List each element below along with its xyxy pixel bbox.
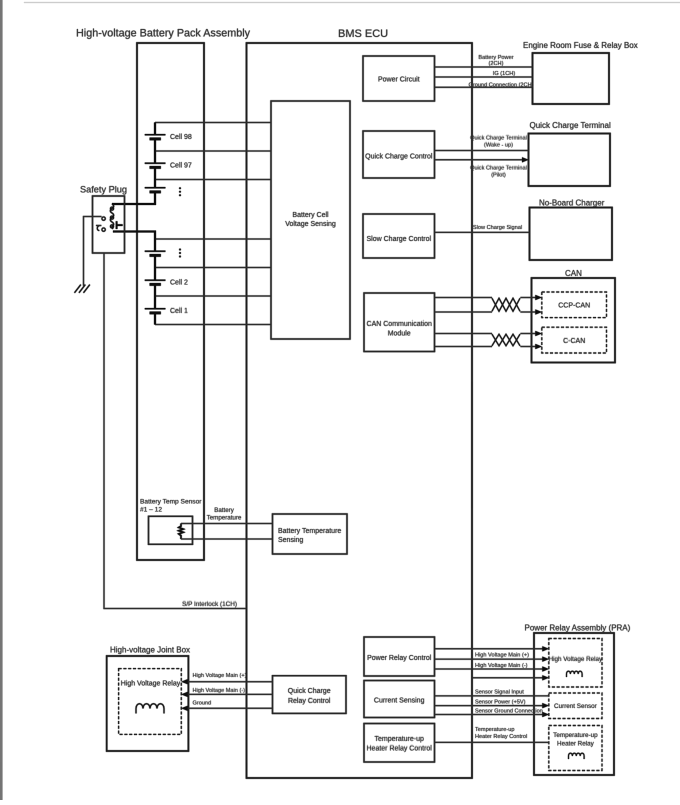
wire: power relay control third	[435, 668, 544, 670]
wire: Sensor Ground Connection	[435, 714, 544, 716]
High Voltage Relay dashed box (joint box)	[119, 669, 182, 735]
arrowhead into Quick Charge Terminal	[522, 157, 529, 162]
Temperature-up Heater Relay dashed box	[549, 726, 602, 771]
safety plug main contact squiggle	[110, 204, 113, 229]
arrowhead CCP-CAN high	[535, 295, 542, 300]
Quick Charge Control box	[363, 131, 435, 178]
wire: Ground to joint box	[187, 707, 273, 709]
CCP-CAN dashed box	[542, 292, 607, 318]
relay coil K1 (joint box)	[136, 704, 164, 714]
No-Board Charger box	[530, 208, 613, 261]
twisted pair symbol CCP-CAN	[492, 298, 520, 311]
S/P interlock wire to BMS ECU	[104, 253, 247, 609]
chassis ground symbol	[75, 285, 90, 293]
arrowhead HV main + PRA	[542, 646, 549, 651]
scan faint top edge line	[24, 2, 680, 3]
wire: IG (1CH)	[435, 76, 533, 78]
wire: CCP-CAN low	[435, 311, 537, 313]
wire: High Voltage Main (+) to joint box	[187, 681, 273, 683]
scan left border band	[0, 0, 2, 800]
safety plug contact ring top	[110, 207, 113, 210]
wire: High Voltage Main (-) to PRA	[435, 658, 544, 660]
wire: temp sensor signal upper	[181, 523, 273, 525]
wire: Quick Charge Terminal (Pilot)	[435, 159, 524, 161]
wire: upper battery chain to Safety Plug	[112, 123, 155, 205]
cell tap wire 4 (top of lower group)	[155, 238, 271, 240]
wire: Quick Charge Terminal (Wake-up)	[435, 150, 529, 152]
arrowhead High Voltage Main (+) left	[181, 679, 188, 684]
interlock blade stub	[96, 225, 101, 227]
interlock contact ring upper	[102, 217, 105, 220]
wire: Sensor Power (+5V)	[435, 705, 544, 707]
Battery Temperature Sensing box	[273, 514, 348, 554]
Current Sensing box	[364, 681, 435, 718]
wire: C-CAN low	[435, 346, 537, 348]
safety plug contact ring lower	[110, 225, 113, 228]
arrowhead CCP-CAN low	[535, 309, 542, 314]
ellipsis dots lower	[179, 249, 181, 258]
High-voltage Battery Pack Assembly box	[137, 43, 204, 560]
High Voltage Relay dashed box (PRA)	[549, 639, 602, 688]
Quick Charge Relay Control box	[273, 676, 347, 714]
arrowhead third wire PRA	[542, 666, 549, 671]
wire: C-CAN high	[435, 333, 537, 335]
relay coil K2 (PRA high voltage relay)	[567, 671, 583, 677]
wire: Battery Power (2CH)	[435, 66, 533, 68]
safety plug male pin (T)	[117, 221, 123, 229]
cell tap wire 3 (below Cell 97)	[155, 179, 271, 181]
High-voltage Joint Box box	[107, 656, 189, 751]
arrowhead C-CAN low	[535, 344, 542, 349]
Temperature-up Heater Relay Control box	[364, 724, 435, 763]
battery cell (ellipsis cell lower) plates	[145, 251, 166, 255]
arrowhead High Voltage Main (-) left	[181, 692, 188, 697]
Current Sensor dashed box	[549, 693, 602, 719]
cell tap wire 7 (bottom of Cell 1)	[155, 324, 271, 326]
interlock wire from ground	[84, 217, 102, 286]
wire: High Voltage Main (+) to PRA	[435, 648, 544, 650]
Power Circuit box	[363, 56, 435, 101]
wire: from ECU edge to HV relay	[472, 677, 544, 679]
Battery Temp Sensor box	[149, 516, 193, 544]
cell tap wire 6 (Cell 2 / Cell 1)	[155, 295, 271, 297]
Power Relay Assembly box	[534, 633, 614, 775]
CAN Communication Module box	[364, 293, 435, 352]
wire: Ground Connection (2CH)	[435, 86, 533, 88]
battery cell C2 plates	[145, 280, 166, 284]
battery cell C98 plates	[145, 135, 166, 139]
wire: Safety Plug return to lower battery chain	[113, 232, 155, 325]
cell tap wire 2 (Cell 98 / Cell 97)	[155, 150, 271, 152]
wire: Sensor Signal Input	[435, 695, 549, 697]
wire: Temperature-up Heater Relay Control	[435, 741, 549, 743]
battery cell C1 plates	[145, 309, 166, 313]
interlock contact ring lower	[102, 228, 105, 231]
wire: High Voltage Main (-) to joint box	[187, 693, 273, 695]
interlock hook contact	[97, 226, 99, 231]
twisted pair symbol C-CAN	[492, 334, 520, 346]
Engine Room Fuse & Relay Box box	[533, 53, 610, 104]
BMS ECU box	[247, 43, 473, 778]
arrowhead sensor ground	[542, 712, 549, 717]
Quick Charge Terminal box	[529, 134, 611, 187]
C-CAN dashed box	[542, 327, 607, 353]
wire: CCP-CAN high	[435, 297, 537, 299]
relay coil K3 (temperature-up heater relay)	[569, 753, 585, 759]
Battery Cell Voltage Sensing box U-sense	[271, 101, 350, 339]
safety plug contact ring middle	[110, 216, 113, 219]
cell tap wire 1 (top of Cell 98)	[155, 122, 271, 124]
CAN box	[532, 278, 616, 363]
arrowhead Ground left	[181, 706, 188, 711]
battery cell (ellipsis cell upper) plates	[145, 188, 166, 192]
cell tap wire 5 (above Cell 2)	[155, 267, 271, 269]
wire: temp sensor signal lower	[181, 538, 273, 540]
arrowhead C-CAN high	[535, 331, 542, 336]
wire: Slow Charge Signal	[435, 231, 530, 233]
arrowhead fourth wire PRA	[542, 675, 549, 680]
Slow Charge Control box	[363, 214, 435, 258]
Safety Plug box	[93, 196, 125, 253]
arrowhead sensor power	[542, 703, 549, 708]
thermistor RT zigzag	[179, 524, 184, 540]
Power Relay Control box	[364, 637, 435, 676]
battery cell C97 plates	[145, 163, 166, 167]
arrowhead HV main - PRA	[542, 657, 549, 662]
ellipsis dots upper	[179, 187, 181, 196]
